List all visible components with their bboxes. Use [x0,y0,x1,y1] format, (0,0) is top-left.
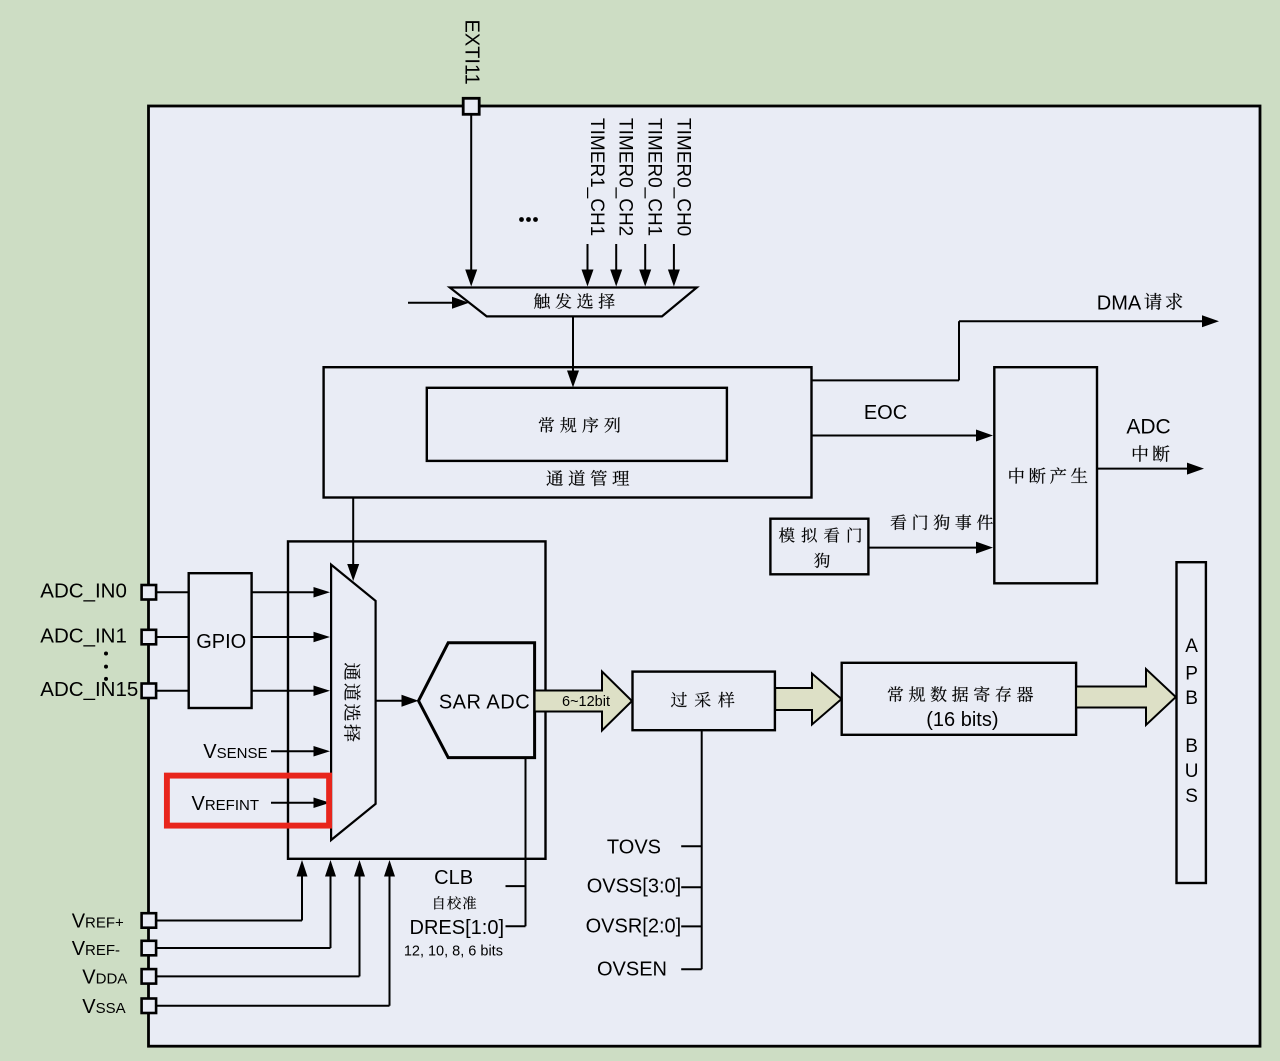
bus arrow oversampler to regular data register [775,674,841,725]
svg-text:B: B [1185,688,1198,709]
wire TIMER0_CH1 to trigger mux [644,244,646,270]
wire ADC interrupt output [1097,468,1187,470]
svg-text:EXTI11: EXTI11 [461,20,483,85]
svg-text:GPIO: GPIO [196,631,246,653]
wire trigger mux to regular sequence [572,316,574,370]
svg-text:OVSEN: OVSEN [597,959,667,981]
bus arrow regular data register to APB bus [1076,669,1176,725]
wire watchdog event to interrupt generation [868,547,976,549]
svg-text:TIMER0_CH2: TIMER0_CH2 [615,118,636,236]
pad VSSA [142,999,157,1014]
block 中断产生 interrupt generation [994,367,1097,583]
svg-text:P: P [1185,664,1198,685]
pad ADC_IN1 [142,630,157,645]
wire VSENSE to channel mux [271,750,314,752]
svg-text:ADC: ADC [1126,416,1170,439]
svg-text:VREF-: VREF- [72,938,120,960]
vertical ellipsis between ADC_IN1 and ADC_IN15 [104,652,108,656]
svg-text:TOVS: TOVS [607,837,661,859]
wire GPIO to channel mux [252,636,314,638]
svg-text:(16 bits): (16 bits) [926,709,998,731]
trigger mux 触发选择 [450,288,697,317]
block ADC core with CLB [288,541,546,858]
wire EOC to interrupt generation [812,435,977,437]
svg-text:A: A [1185,636,1198,657]
wire ADC_IN0 to GPIO [156,591,189,593]
pad VREF- [142,941,157,956]
pad ADC_IN15 [142,684,157,699]
svg-text:B: B [1185,736,1198,757]
svg-text:S: S [1185,786,1198,807]
wire ADC_IN1 to GPIO [156,636,189,638]
svg-text:VREF+: VREF+ [72,911,124,933]
pad EXTI11 [463,98,479,114]
block SAR ADC [419,643,535,758]
svg-text:CLB: CLB [434,867,473,889]
wire VREF+ into ADC core [156,920,302,922]
wire oversampler control trunk [701,730,703,969]
wire TIMER0_CH0 to trigger mux [673,244,675,270]
wire DMA request [812,379,960,381]
svg-text:12, 10, 8, 6 bits: 12, 10, 8, 6 bits [404,944,503,960]
block 通道管理 channel management [324,367,812,497]
wire TIMER0_CH2 to trigger mux [615,244,617,270]
wire VDDA into ADC core [156,975,360,977]
block 常规序列 regular sequence [427,388,727,461]
svg-text:6~12bit: 6~12bit [562,694,610,710]
wire GPIO to channel mux [252,591,314,593]
svg-text:VSENSE: VSENSE [203,741,267,763]
pad ADC_IN0 [142,585,157,600]
bus arrow SAR ADC to oversampler 6~12bit [535,672,632,731]
svg-text:U: U [1185,761,1199,782]
svg-text:VSSA: VSSA [82,996,125,1018]
svg-text:ADC_IN15: ADC_IN15 [40,678,138,701]
wire VREFINT to channel mux [271,802,314,804]
ADC module block outline [149,106,1261,1046]
svg-text:TIMER1_CH1: TIMER1_CH1 [586,118,607,236]
svg-text:ADC_IN0: ADC_IN0 [40,580,127,603]
wire VREF- into ADC core [156,947,331,949]
pad VREF+ [142,913,157,928]
wire ADC_IN15 to GPIO [156,690,189,692]
wire EXTI11 to trigger mux [470,115,472,270]
block 模拟看门狗 analog watchdog [770,519,868,575]
svg-text:ADC_IN1: ADC_IN1 [40,624,127,647]
wire software trigger into trigger mux [408,302,452,304]
wire channel mux to SAR ADC [376,700,402,702]
block 过采样 oversampler [633,672,775,731]
svg-text:DRES[1:0]: DRES[1:0] [410,917,504,939]
svg-text:EOC: EOC [864,402,907,424]
pad VDDA [142,969,157,984]
channel mux 通道选择 [331,565,376,840]
node 看门狗事件 watchdog event label [891,514,993,530]
svg-text:VREFINT: VREFINT [191,793,259,815]
wire channel management to channel mux [352,498,354,565]
wire VSSA into ADC core [156,1005,390,1007]
block 常规数据寄存器 regular data register [842,663,1076,735]
svg-text:OVSS[3:0]: OVSS[3:0] [587,876,682,898]
highlight box around VREFINT [167,776,329,826]
ellipsis dots for more triggers [519,217,524,222]
block GPIO [189,573,252,708]
wire TIMER1_CH1 to trigger mux [587,244,589,270]
wire GPIO to channel mux [252,690,314,692]
svg-text:SAR ADC: SAR ADC [439,692,530,714]
svg-text:DMA: DMA [1097,293,1142,315]
svg-text:OVSR[2:0]: OVSR[2:0] [586,916,682,938]
node 自校准 label [434,896,476,909]
svg-text:TIMER0_CH0: TIMER0_CH0 [672,118,693,236]
svg-text:TIMER0_CH1: TIMER0_CH1 [644,118,665,236]
block APB BUS [1177,562,1206,883]
wire SAR ADC to DRES [525,758,527,927]
svg-text:VDDA: VDDA [82,966,127,988]
